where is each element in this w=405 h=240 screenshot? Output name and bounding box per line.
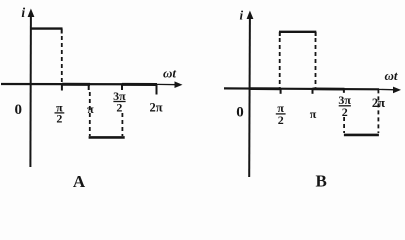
svg-text:0: 0 [236,104,244,120]
svg-text:2: 2 [278,113,284,127]
svg-text:2π: 2π [372,96,385,110]
svg-text:π: π [87,102,94,116]
svg-text:0: 0 [15,102,23,118]
svg-text:B: B [316,172,327,191]
svg-text:2: 2 [56,112,62,126]
svg-text:π: π [310,107,317,121]
svg-text:i: i [21,5,25,20]
svg-text:2π: 2π [149,100,162,114]
svg-text:2: 2 [116,100,122,114]
svg-text:ωt: ωt [163,66,176,81]
svg-text:i: i [239,8,243,23]
svg-text:A: A [73,172,86,191]
svg-text:ωt: ωt [384,68,397,83]
svg-text:2: 2 [342,105,348,119]
